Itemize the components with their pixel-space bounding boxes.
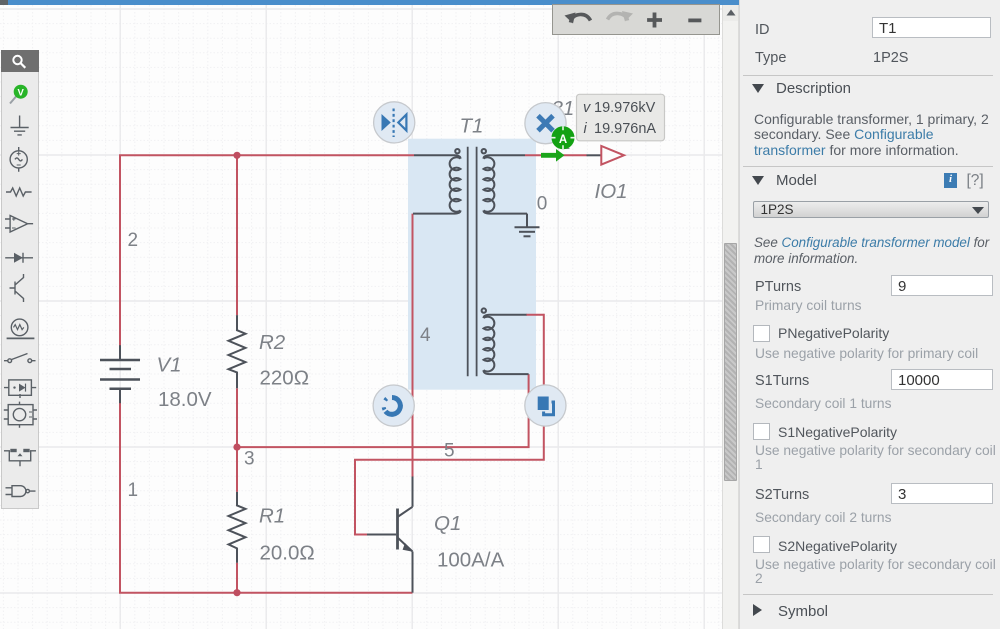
svg-text:18.0V: 18.0V	[158, 388, 212, 411]
svg-text:IO1: IO1	[595, 180, 628, 203]
svg-text:v: v	[583, 100, 591, 116]
svg-text:R2: R2	[259, 331, 286, 354]
svg-text:4: 4	[420, 325, 431, 346]
svg-text:0: 0	[537, 194, 548, 215]
svg-text:220Ω: 220Ω	[260, 367, 310, 390]
svg-text:3: 3	[244, 449, 255, 470]
svg-text:T1: T1	[460, 115, 484, 138]
svg-text:A: A	[559, 134, 567, 146]
svg-text:2: 2	[128, 230, 139, 251]
svg-text:100A/A: 100A/A	[437, 549, 505, 572]
svg-text:19.976nA: 19.976nA	[594, 121, 656, 137]
svg-text:V1: V1	[157, 354, 182, 377]
svg-text:V: V	[18, 88, 25, 99]
svg-text:19.976kV: 19.976kV	[594, 100, 656, 116]
svg-text:Q1: Q1	[434, 512, 461, 535]
svg-text:20.0Ω: 20.0Ω	[260, 542, 315, 565]
svg-text:R1: R1	[259, 505, 285, 528]
svg-text:5: 5	[444, 441, 455, 462]
svg-text:1: 1	[128, 480, 139, 501]
